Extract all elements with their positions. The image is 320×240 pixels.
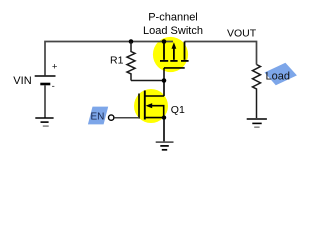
- gate lead down: [163, 68, 165, 81]
- body arrow head: [172, 42, 177, 48]
- ground under load: [247, 119, 267, 127]
- battery VIN: negative short plate: [40, 83, 50, 86]
- source contact bar: [160, 60, 168, 62]
- resistor R1: [127, 42, 135, 81]
- EN input parallelogram: [88, 107, 108, 125]
- battery VIN: positive long plate: [35, 75, 56, 77]
- P-channel MOSFET (load switch): [160, 42, 189, 81]
- wire: top rail left section (VIN rail) with left drop to battery: [45, 42, 173, 76]
- svg-text:+: +: [52, 62, 58, 73]
- wire: battery negative lead down: [44, 85, 46, 117]
- node: junction dot Q1 source/body: [162, 115, 166, 119]
- svg-text:Load: Load: [266, 71, 290, 83]
- svg-text:Load Switch: Load Switch: [143, 25, 203, 37]
- drain lead: [145, 95, 164, 97]
- svg-text:P-channel: P-channel: [148, 12, 198, 24]
- ground under Q1: [156, 142, 174, 150]
- node: junction dot rail/R1: [129, 39, 134, 44]
- body arrow stem: [173, 48, 175, 60]
- wire: PMOS gate node down to Q1 drain: [163, 81, 165, 97]
- gate bar: [164, 67, 185, 69]
- node: junction dot gate/R1/Q1 drain: [162, 78, 167, 83]
- node: junction dot rail/PMOS source: [162, 39, 167, 44]
- highlight circle over P-channel FET: [153, 37, 188, 72]
- svg-text:R1: R1: [110, 55, 124, 67]
- wire: R1 bottom to PMOS gate node: [131, 80, 164, 82]
- body contact bar: [170, 60, 177, 62]
- gate bar: [138, 94, 140, 119]
- ground under battery: [35, 118, 53, 126]
- svg-text:VIN: VIN: [13, 75, 31, 87]
- svg-text:VOUT: VOUT: [227, 28, 257, 40]
- body line with bend to source: [150, 106, 164, 118]
- drain contact bar: [181, 60, 189, 62]
- transistor Q1 (NMOS): [139, 91, 164, 120]
- wire: top rail right section to VOUT drop: [185, 42, 257, 65]
- EN terminal circle: [109, 115, 114, 120]
- drain stub right: [184, 42, 186, 60]
- Q1 body arrow head: [146, 103, 153, 108]
- load resistor: [253, 65, 261, 119]
- source stub left: [163, 42, 165, 60]
- svg-text:EN: EN: [91, 112, 105, 123]
- channel bar: [144, 91, 146, 120]
- highlight circle over Q1: [134, 89, 168, 123]
- Load parallelogram (rotated): [265, 63, 297, 85]
- svg-text:Q1: Q1: [171, 104, 185, 116]
- source lead: [145, 117, 164, 119]
- wire: EN to Q1 gate: [114, 117, 139, 119]
- wire: Q1 source to ground: [163, 118, 165, 142]
- svg-text:-: -: [52, 81, 55, 92]
